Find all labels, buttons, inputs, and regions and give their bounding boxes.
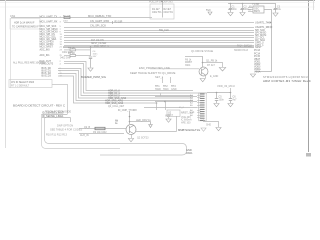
bus wire BUS_D4 with bend [80,64,207,94]
wire from row D3b to U2 [156,103,158,110]
wire PWM_OUT0 short [64,63,80,65]
svg-text:MMBT2222ALT1G: MMBT2222ALT1G [178,128,200,132]
svg-text:ID_SENSE_LINE1: ID_SENSE_LINE1 [42,114,64,118]
transistor Q2 [126,125,136,135]
svg-text:SEE TABLE 4 FOR CODES: SEE TABLE 4 FOR CODES [50,127,82,131]
junction dot row D3b [156,102,158,104]
svg-text:IO_C: IO_C [179,107,185,109]
capacitor C3 far right top [273,3,281,13]
svg-text:ESD_PROTECTED_LINE: ESD_PROTECTED_LINE [139,66,170,70]
svg-text:Q1 DRIVE STAGE: Q1 DRIVE STAGE [191,49,213,53]
capacitor C2 [240,3,249,12]
bus wire BUS_D0 with bend [58,69,193,96]
svg-text:Q1_FB 1k: Q1_FB 1k [206,59,218,62]
capacitor C5 [215,93,225,104]
second bottom wire [79,133,124,135]
wire ID_SENSE0 [42,111,68,115]
svg-text:MCU_UART_TX: MCU_UART_TX [40,16,58,19]
transistor Q1 [199,67,208,76]
sheet right outer border [313,0,315,10]
junction dot NRST [90,46,92,48]
svg-text:LED_DRV 1k: LED_DRV 1k [136,119,152,122]
Q2 annotation text block [181,116,192,125]
wire MCU_SPI_CS [64,35,254,37]
pin header left pin ticks [197,96,201,118]
junction dot Q2 b [129,121,131,123]
long vertical power wire right [264,10,272,72]
resistor R0 inline on UART_TX [63,15,71,22]
wire VDDA horizontal [255,71,272,73]
junction dot row B [164,101,166,103]
junction dot Q2 a [129,116,131,118]
header bottom ground wire [204,120,219,128]
junction dot C1 [230,3,232,5]
power flag 5V0 small left [206,8,212,15]
left vertical wire B [45,117,187,155]
ground under header wire [216,128,221,131]
pin header J1 body [199,93,207,121]
svg-text:Q2_B: Q2_B [84,126,91,129]
MCU right pin labels column [254,22,269,74]
capacitor C1 [228,3,237,12]
junction dot C2 [242,3,244,5]
svg-text:E_GND: E_GND [210,75,219,78]
svg-text:CN_UART_RXD: CN_UART_RXD [90,19,109,23]
svg-text:GND: GND [171,88,177,91]
ground under C1 [228,13,233,16]
small text left of Q2 [115,121,119,126]
sheet left border [5,0,7,148]
svg-text:SW_CLK: SW_CLK [159,29,169,32]
wire MCU_I2C_SDA [64,40,254,42]
test point TP1 [155,77,163,91]
svg-text:MCU_NRST_C: MCU_NRST_C [94,45,109,47]
svg-text:BUZZER_PWM_SIG: BUZZER_PWM_SIG [81,75,106,79]
stub from label to rail [230,88,232,93]
header small labels left [179,94,193,117]
power rail mid [207,92,231,94]
sheet top border [0,0,315,2]
svg-text:HDR_SNS_AIN2: HDR_SNS_AIN2 [105,102,124,105]
junction dot on top border [161,0,163,2]
test point TP3 [171,85,177,91]
ground under C4 [88,68,93,71]
capacitor C4 on NRST [89,47,98,68]
net labels column for CN1 wires [40,16,58,49]
wire collector vertical Q1 [202,56,204,67]
svg-text:VDD_33_MCU: VDD_33_MCU [217,84,235,88]
resistor R9 inline [93,127,107,134]
inner frame line left [10,18,12,88]
svg-text:16V: 16V [93,56,97,58]
Q1 parameters text block [185,59,193,67]
wire into Q2 base [79,128,126,130]
small component labels column [115,121,119,126]
wire MCU_UART_TX [11,17,152,19]
wire vertical from top rail to R1/R2 [162,1,164,18]
svg-text:PULLUP GROUP 3V3: PULLUP GROUP 3V3 [149,1,173,4]
svg-text:KEEP TRACE SHORT TO Q1_DRIV: KEEP TRACE SHORT TO Q1_DRIVE [130,71,176,75]
connector CN1 body box [10,19,40,30]
wire MCU_SPI_MISO [64,30,254,32]
svg-text:R3 10R: R3 10R [115,21,123,23]
power rail 3V3 top [228,3,275,5]
resistor R5 inline with value [60,52,90,59]
ground under Q1 [200,79,205,82]
pin numbers column [60,17,63,49]
junction dot Q1 [202,62,204,64]
wire base Q1 [185,56,202,58]
svg-text:ID_CMP_TH 0R8: ID_CMP_TH 0R8 [118,109,137,112]
sheet number mark bottom right [306,153,311,157]
pull-up block box top middle [150,4,174,19]
pin numbers lower [60,49,63,77]
svg-text:AUX_IN: AUX_IN [80,134,89,137]
wire header row C [144,107,197,109]
svg-text:ALL PULL RES ARE 10K 0402: ALL PULL RES ARE 10K 0402 [13,62,46,65]
svg-text:MCU_DEBUG_TXD: MCU_DEBUG_TXD [88,14,111,18]
svg-text:BUS_D3: BUS_D3 [42,74,52,77]
wire MCU_GPIO1 [64,45,254,47]
wire MCU_UART_RX [64,22,254,24]
wire Q2 to arrow [130,121,151,123]
resistor R3 inline [113,21,123,24]
frame zone line lower [0,6,315,8]
svg-text:10u: 10u [277,8,282,11]
svg-text:ADC_IN1: ADC_IN1 [40,54,51,57]
left vertical wire A [42,114,121,149]
svg-text:PA14_SWCLK: PA14_SWCLK [237,44,252,47]
svg-text:PAD1: PAD1 [186,151,193,155]
svg-text:R7 4k7: R7 4k7 [207,64,216,67]
input arrow PB3 [267,26,272,28]
ground under C2 [240,13,245,16]
svg-text:Y1 8M: Y1 8M [252,3,259,6]
left lower net labels group [40,48,54,77]
wire ID_SENSE1 [42,114,71,118]
svg-text:SHD: SHD [206,123,211,126]
resistor R4 inline with value [62,46,90,53]
wire MCU_SPI_MOSI [64,32,254,34]
svg-text:SWDIO PA13: SWDIO PA13 [234,49,249,52]
svg-text:100n: 100n [232,8,238,11]
frame zone line upper [0,2,315,4]
Q2 output wire right [136,131,177,133]
bus wire BUS_D1 with bend [58,71,193,99]
svg-text:SWD: SWD [155,88,161,91]
oscillator Y1 box [248,3,264,13]
svg-text:ARM CORTEX-M3 72MHz RevC: ARM CORTEX-M3 72MHz RevC [263,79,311,83]
wire into Q1 base [150,68,199,70]
svg-text:0402 DNP: 0402 DNP [60,56,71,59]
svg-text:CN_SPI_SCK: CN_SPI_SCK [90,24,106,28]
junction dot rail 2 [230,92,232,94]
svg-text:FIT 1-2 DEFAULT: FIT 1-2 DEFAULT [11,84,30,87]
reset supervisor U2 box [167,110,195,117]
net label box with ground mid bottom [165,114,171,122]
svg-text:HFE 100: HFE 100 [181,121,191,124]
capacitor C6 [229,93,237,104]
svg-text:SWC: SWC [163,88,169,91]
stub on row A [160,94,162,97]
transistor Q2 collector vertical [129,111,131,124]
ground under C3 [273,13,278,16]
Q1 emitter wire [205,75,207,78]
svg-text:8MHz: 8MHz [254,11,261,13]
pin header J1 pin rows [200,94,205,120]
svg-text:0402 5%: 0402 5% [152,11,162,14]
wire DAC_OUT short [64,61,80,63]
vertical from row B [165,102,167,111]
ground under C6 [228,104,233,107]
svg-text:VSS: VSS [165,114,170,117]
vertical joining output [176,116,178,132]
sheet right border [308,0,310,152]
svg-text:DNP OPTION: DNP OPTION [57,124,73,128]
arrow down at end of wire [149,122,153,128]
wire to right of Q1 with bend [203,63,223,68]
wire MCU_SPI_SCK [64,27,254,29]
ground directly under header [201,128,206,131]
svg-text:0402: 0402 [63,20,69,22]
svg-text:Q2 SOT23: Q2 SOT23 [137,137,149,140]
svg-text:MCU_UART_RX: MCU_UART_RX [40,21,58,24]
test point TP2 [163,77,171,91]
svg-text:5V0: 5V0 [206,8,211,12]
bus wire BUS_D2 with bend [58,74,193,101]
svg-text:0402 5%: 0402 5% [164,11,174,14]
input arrow PA10 [267,22,271,24]
Q2 emitter down [131,135,133,139]
wire header row B [155,101,197,103]
junction dot rail 1 [216,92,218,94]
wire MCU_GPIO0 [64,42,254,44]
oscillator pin stubs [248,7,253,9]
svg-text:BOARD ID DETECT CIRCUIT - REV: BOARD ID DETECT CIRCUIT - REV C [13,104,66,108]
svg-text:R10 R11 R12 R13: R10 R11 R12 R13 [46,133,68,137]
svg-text:USART1_TX: USART1_TX [255,22,269,25]
svg-text:VSSA: VSSA [254,71,261,74]
ground at Q1 right wire [219,68,225,72]
svg-text:HDR 2x14 MAIN IF: HDR 2x14 MAIN IF [14,22,35,25]
wire header row A [155,96,197,98]
jumper block JP1 box [9,80,52,88]
svg-text:Q2_COLL_NET: Q2_COLL_NET [108,106,125,108]
bus wire BUS_D3 with bend [80,62,193,91]
svg-text:3904: 3904 [185,64,191,67]
svg-text:R17 10k P/U: R17 10k P/U [91,40,104,42]
wire MCU_I2C_SCL [64,37,254,39]
ground VSSA [250,74,255,77]
svg-text:JP1 ID SELECT 0603: JP1 ID SELECT 0603 [11,81,35,84]
ground under Q2 [128,139,133,142]
svg-text:TO CARRIER BOARD IF: TO CARRIER BOARD IF [12,26,39,29]
wire from JP1 to ID sense [52,85,68,115]
svg-text:ADC_IN0: ADC_IN0 [40,48,51,51]
svg-text:100n: 100n [219,98,225,101]
page background [0,0,315,160]
svg-text:4u7: 4u7 [233,98,238,101]
wire MCU_NRST main [63,46,254,48]
bus wire BUS_D3b with bend [58,76,157,103]
ground under C5 [214,104,219,107]
bend down ID_SENSE1 [70,118,72,123]
